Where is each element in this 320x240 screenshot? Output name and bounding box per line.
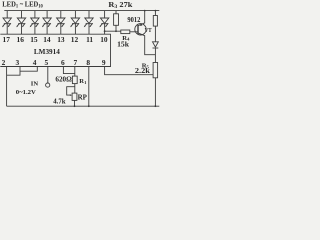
wire resistor to diode: [154, 26, 156, 42]
svg-text:9012: 9012: [127, 15, 140, 24]
svg-text:9: 9: [102, 58, 106, 67]
junction dot R5-ground: [155, 105, 157, 107]
junction dot R3-node: [115, 30, 117, 32]
LED D11 (pin 11): [84, 11, 93, 35]
svg-text:2: 2: [2, 58, 6, 67]
svg-text:620Ω: 620Ω: [55, 75, 72, 83]
wire pin8 to ground rail: [88, 67, 90, 107]
transistor VT 9012 circle: [135, 24, 146, 35]
svg-text:6: 6: [61, 58, 65, 67]
input terminal circle: [46, 83, 50, 87]
resistor R1 620ohm: [72, 76, 77, 84]
LED D10 (pin 10): [99, 11, 108, 35]
transistor base bar: [137, 25, 139, 34]
svg-text:4: 4: [33, 58, 37, 67]
svg-text:15k: 15k: [117, 39, 130, 48]
wire R4 to base: [130, 31, 138, 33]
potentiometer RP 4.7k: [72, 93, 77, 100]
wire pin9 to R5 lower side: [105, 67, 154, 75]
wire R5 to ground rail: [154, 78, 156, 106]
wire rail to R3: [115, 11, 117, 14]
ground bottom rail: [7, 105, 160, 107]
LED D12 (pin 12): [70, 11, 79, 35]
svg-text:13: 13: [57, 35, 65, 44]
LED D15 (pin 15): [30, 11, 39, 35]
wire R3 bottom to base node: [115, 25, 117, 31]
svg-text:R1: R1: [79, 78, 87, 85]
junction dot emitter-rail: [144, 10, 146, 12]
transistor emitter lead: [138, 11, 145, 26]
junction dot rail top right: [155, 10, 157, 12]
wire pin5 to input terminal: [47, 67, 49, 84]
resistor R5 2.2k: [153, 63, 158, 78]
LED D16 (pin 16): [16, 11, 25, 35]
svg-text:10: 10: [100, 35, 108, 44]
svg-text:7: 7: [73, 58, 77, 67]
svg-text:RP: RP: [78, 94, 88, 102]
svg-text:11: 11: [86, 35, 93, 44]
wire pin2 to ground rail: [6, 67, 8, 107]
wire RP bottom to ground rail: [74, 100, 76, 106]
svg-text:R3 27k: R3 27k: [108, 1, 132, 10]
wire pin6 to pin7 wire: [63, 67, 74, 74]
wire R1 bottom to RP top: [74, 84, 76, 94]
wire pin3 down and left to pin2 wire: [7, 67, 20, 76]
wire base node from pin10 wire to R4: [105, 30, 121, 32]
diode VD: [153, 42, 159, 47]
svg-text:3: 3: [16, 58, 20, 67]
wire pin4 down and left to pin3 wire: [20, 67, 37, 72]
svg-text:4.7k: 4.7k: [53, 98, 65, 106]
LED D17 (pin 17): [2, 11, 11, 35]
transistor collector lead: [138, 33, 155, 55]
svg-text:LED1 ~ LED10: LED1 ~ LED10: [2, 0, 43, 10]
junction dot pin8-ground: [88, 105, 90, 107]
svg-text:14: 14: [43, 35, 51, 44]
svg-text:12: 12: [71, 35, 79, 44]
LED D13 (pin 13): [56, 11, 65, 35]
wire rail to right resistor: [154, 11, 156, 16]
svg-text:VT: VT: [145, 27, 152, 34]
wire pin7 to R1: [74, 67, 76, 77]
wire diode to R5: [154, 48, 156, 63]
svg-text:17: 17: [3, 35, 11, 44]
svg-text:5: 5: [44, 58, 48, 67]
svg-text:2.2k: 2.2k: [135, 67, 150, 75]
svg-text:0~1.2V: 0~1.2V: [16, 89, 36, 96]
junction dot RP-ground: [74, 105, 76, 107]
svg-text:LM3914: LM3914: [34, 47, 60, 56]
resistor R6 top right: [153, 16, 157, 27]
wire RP wiper connection: [67, 87, 75, 95]
resistor R4 15k: [121, 30, 130, 34]
svg-text:8: 8: [86, 58, 90, 67]
resistor R3 27k: [114, 14, 119, 25]
IC U1 LM3914 box (left edge cut off at scan border): [0, 34, 110, 66]
arrowhead of RP wiper: [70, 94, 72, 96]
svg-text:16: 16: [17, 35, 25, 44]
wire top supply rail: [4, 10, 159, 12]
svg-text:15: 15: [30, 35, 38, 44]
junction dot pin10-node: [104, 30, 106, 32]
LED D14 (pin 14): [42, 11, 51, 35]
emitter PNP arrow: [140, 24, 143, 26]
svg-text:IN: IN: [31, 81, 39, 88]
